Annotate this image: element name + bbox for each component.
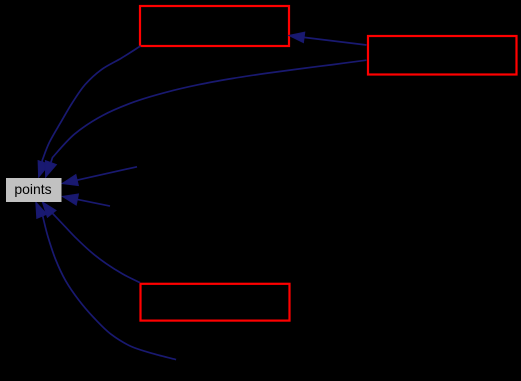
edge: hidden caller to points (right lower arrow) bbox=[62, 194, 110, 206]
node: truncated caller box (top) bbox=[140, 6, 289, 46]
edge: top caller box to points (inner left curve) bbox=[38, 46, 141, 178]
edge: bottom caller box to points (bottom-right leaning arrow) bbox=[42, 202, 140, 283]
edge: right caller box to points (long curve) bbox=[45, 60, 366, 177]
edge: hidden bottom caller to points (outer bottom curve) bbox=[36, 202, 176, 360]
node: points (current function, gray) bbox=[6, 178, 62, 202]
node: truncated caller box (top right) bbox=[368, 36, 517, 75]
svg-text:points: points bbox=[14, 181, 51, 197]
edge: hidden caller to points (right upper arrow) bbox=[62, 167, 137, 186]
edge: right caller box to top caller box bbox=[289, 32, 367, 45]
node: truncated caller box (bottom) bbox=[141, 284, 290, 321]
